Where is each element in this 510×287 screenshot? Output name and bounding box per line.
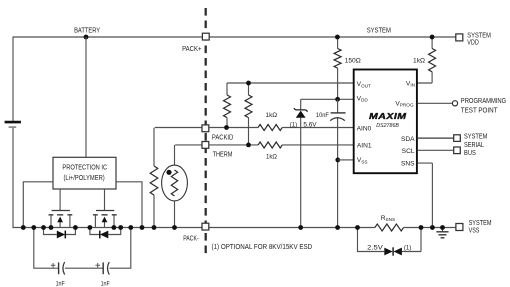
- node VSS junction: [335, 158, 340, 163]
- wire: bottom bus right of RSNS: [404, 227, 457, 229]
- node THERM/RB: [246, 143, 251, 148]
- wire PACKID to AIN0: [209, 127, 354, 129]
- node PACKID/RA: [224, 125, 229, 130]
- terminal SYSTEM VSS: [456, 224, 463, 231]
- svg-text:BATTERY: BATTERY: [74, 25, 100, 34]
- capacitor C1 1nF branch wire: [34, 228, 58, 269]
- resistor RA (PACKID pullup): [224, 83, 231, 128]
- transistor Q1 (n-ch MOSFET): [49, 211, 73, 228]
- node RB top: [246, 81, 251, 86]
- ground symbol: [436, 228, 448, 238]
- svg-text:TEST POINT: TEST POINT: [461, 107, 498, 114]
- resistor 1kOhm (AIN1): [258, 142, 282, 148]
- test point circle: [452, 101, 457, 106]
- svg-text:10nF: 10nF: [316, 112, 329, 119]
- terminal PACKID: [202, 125, 209, 132]
- node 1k top: [430, 35, 435, 40]
- wire VSS stub: [338, 159, 354, 161]
- resistor RB (THERM pullup): [245, 83, 252, 145]
- wire: battery vertical to protection IC: [85, 37, 87, 158]
- terminal SDA: [454, 135, 461, 142]
- svg-text:THERM: THERM: [213, 150, 233, 159]
- dashed pack boundary line: [205, 8, 207, 257]
- wire THERM to AIN1: [209, 144, 354, 146]
- wire: left rail lower: [12, 128, 14, 228]
- svg-text:PROTECTION IC: PROTECTION IC: [62, 165, 107, 172]
- terminal SCL: [454, 147, 461, 154]
- svg-text:1kΩ: 1kΩ: [266, 154, 277, 161]
- svg-text:1kΩ: 1kΩ: [266, 112, 278, 119]
- capacitor C1 plates: [58, 262, 60, 274]
- svg-text:VSS: VSS: [469, 228, 480, 235]
- wire between C1 and C2: [65, 267, 103, 269]
- wire: gate drive Q2: [104, 189, 106, 211]
- svg-text:SCL: SCL: [402, 148, 415, 155]
- diode D1 (body diode, points right): [44, 228, 76, 239]
- resistor RSNS: [375, 224, 404, 231]
- svg-text:PACK+: PACK+: [182, 44, 201, 53]
- svg-text:1kΩ: 1kΩ: [413, 58, 425, 65]
- svg-text:SYSTEM: SYSTEM: [469, 220, 492, 227]
- svg-text:SDA: SDA: [401, 136, 415, 143]
- terminal PACK-: [202, 223, 209, 230]
- resistor 1kOhm (AIN0): [258, 125, 282, 131]
- svg-text:MAXIM: MAXIM: [369, 111, 407, 121]
- svg-text:DS2786B: DS2786B: [376, 123, 399, 129]
- wire: protection IC left pin to bus: [23, 182, 53, 228]
- svg-text:(1) OPTIONAL FOR 8KV/15KV ESD: (1) OPTIONAL FOR 8KV/15KV ESD: [212, 244, 313, 251]
- diode D2 (body diode, points left): [90, 228, 121, 239]
- svg-text:1nF: 1nF: [56, 281, 65, 287]
- wire: top rail BATTERY/SYSTEM y=37: [13, 36, 456, 38]
- node VDD junction: [335, 97, 340, 102]
- svg-text:AIN0: AIN0: [357, 126, 372, 133]
- wire C2 to bus: [110, 228, 131, 269]
- terminal SYSTEM VDD: [456, 34, 463, 41]
- battery B1 plates: [5, 121, 21, 124]
- svg-text:AIN1: AIN1: [357, 143, 372, 150]
- svg-text:(1): (1): [290, 122, 297, 129]
- wire: bottom bus left of RSNS: [13, 227, 375, 229]
- svg-text:SERIAL: SERIAL: [464, 142, 484, 149]
- TVS diode 2.5V branch: [358, 228, 422, 256]
- protection IC box: [53, 157, 116, 189]
- terminal THERM: [202, 142, 209, 149]
- svg-text:BUS: BUS: [464, 150, 476, 157]
- wire: gate drive Q1: [59, 189, 61, 211]
- svg-text:1nF: 1nF: [101, 281, 110, 287]
- wire: left rail upper: [12, 37, 14, 121]
- svg-text:SNS: SNS: [401, 160, 415, 167]
- svg-text:(1): (1): [404, 245, 411, 252]
- svg-text:5.6V: 5.6V: [303, 122, 317, 129]
- node battery tap: [84, 35, 89, 40]
- svg-text:SYSTEM: SYSTEM: [367, 25, 391, 34]
- transistor Q2 (n-ch MOSFET): [93, 211, 117, 228]
- svg-text:SYSTEM: SYSTEM: [467, 32, 491, 39]
- svg-text:PACK-: PACK-: [183, 234, 199, 243]
- capacitor 10nF: [316, 99, 346, 227]
- wire SDA stub: [417, 137, 453, 139]
- svg-text:PACKID: PACKID: [212, 132, 233, 141]
- wire: protection IC right pin to bus: [116, 182, 142, 228]
- svg-text:2.5V: 2.5V: [367, 245, 383, 252]
- resistor 1kOhm (VIN): [413, 38, 436, 84]
- svg-text:(Li+/POLYMER): (Li+/POLYMER): [64, 175, 105, 182]
- thermistor RT (in ellipse): [162, 145, 203, 228]
- svg-text:VDD: VDD: [467, 39, 479, 46]
- wire VPROG stub: [417, 102, 452, 104]
- svg-text:150Ω: 150Ω: [345, 58, 361, 65]
- resistor (PACKID pulldown) vertical: [150, 128, 202, 228]
- bus junction dots: [21, 225, 26, 230]
- wire SNS stub and drop: [417, 163, 432, 227]
- svg-text:PROGRAMMING: PROGRAMMING: [461, 98, 506, 105]
- terminal PACK+: [202, 33, 209, 40]
- capacitor C2 1nF plates: [102, 262, 104, 274]
- wire VDD line: [301, 98, 354, 100]
- svg-text:SYSTEM: SYSTEM: [464, 133, 488, 140]
- resistor 150 Ohm: [334, 38, 361, 100]
- wire SCL stub: [417, 149, 453, 151]
- node 150 top: [335, 35, 340, 40]
- zener D3 5.6V: [290, 99, 317, 227]
- wire VOUT line: [227, 82, 354, 84]
- IC U1 DS2786B: [354, 70, 417, 174]
